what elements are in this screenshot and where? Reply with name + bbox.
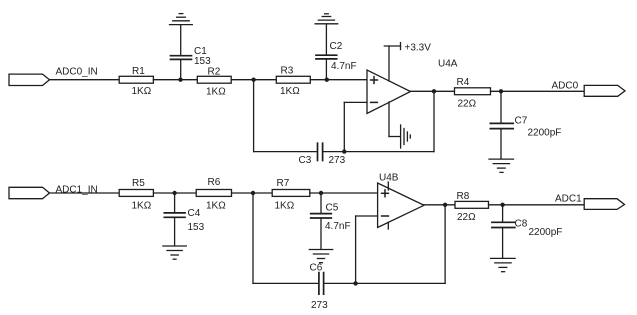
svg-text:22Ω: 22Ω bbox=[458, 98, 477, 109]
capacitor C1 bbox=[171, 25, 212, 80]
svg-text:R1: R1 bbox=[132, 66, 145, 77]
node junction R6/R7 feedback tap bbox=[251, 191, 255, 195]
svg-text:2200pF: 2200pF bbox=[529, 227, 563, 238]
svg-text:C6: C6 bbox=[310, 262, 323, 273]
svg-text:ADC1: ADC1 bbox=[555, 194, 582, 205]
ground below C4 bbox=[163, 246, 186, 259]
resistor R6 bbox=[196, 177, 231, 212]
wire R6 to R7 bbox=[232, 192, 273, 194]
node junction R5/R6/C4 bbox=[172, 191, 176, 195]
capacitor C7 bbox=[490, 91, 561, 159]
svg-text:R8: R8 bbox=[457, 191, 470, 202]
svg-text:C8: C8 bbox=[515, 219, 528, 230]
svg-text:ADC0: ADC0 bbox=[552, 80, 579, 91]
capacitor C5 bbox=[311, 193, 351, 249]
svg-text:C5: C5 bbox=[326, 203, 339, 214]
svg-text:R2: R2 bbox=[208, 67, 221, 78]
wire U4A output to R4 bbox=[411, 90, 455, 92]
wire feedback rail left segment U4B bbox=[253, 282, 319, 284]
wire feedback vertical right bbox=[433, 91, 435, 151]
svg-text:ADC1_IN: ADC1_IN bbox=[56, 184, 98, 195]
resistor R1 bbox=[119, 66, 153, 97]
resistor R8 bbox=[455, 191, 489, 223]
svg-text:+3.3V: +3.3V bbox=[405, 42, 432, 53]
wire R5 to R6 bbox=[153, 192, 196, 194]
node junction R4/C7 bbox=[499, 89, 503, 93]
wire inverting input branch bbox=[344, 102, 367, 151]
wire R3 to U4A noninverting input bbox=[310, 79, 367, 81]
ground U4A pin bbox=[389, 102, 410, 148]
wire R1 to R2 bbox=[153, 79, 197, 81]
ground above C2 bbox=[315, 14, 338, 24]
resistor R4 bbox=[455, 77, 491, 109]
svg-text:C7: C7 bbox=[515, 115, 528, 126]
svg-text:U4A: U4A bbox=[438, 58, 458, 69]
wire feedback vertical right U4B bbox=[444, 205, 446, 284]
svg-text:4.7nF: 4.7nF bbox=[331, 61, 357, 72]
svg-text:C3: C3 bbox=[299, 155, 312, 166]
capacitor C3 bbox=[299, 143, 346, 166]
svg-text:1KΩ: 1KΩ bbox=[132, 201, 152, 212]
svg-text:C4: C4 bbox=[188, 208, 201, 219]
node junction R1/R2/C1 bbox=[178, 78, 182, 82]
capacitor C2 bbox=[316, 24, 357, 80]
wire feedback rail right segment bbox=[323, 151, 434, 153]
wire feedback vertical up to R6/R7 node bbox=[252, 193, 254, 283]
node junction U4B output/feedback bbox=[443, 203, 447, 207]
svg-text:153: 153 bbox=[188, 222, 205, 233]
svg-text:R6: R6 bbox=[208, 177, 221, 188]
svg-text:1KΩ: 1KΩ bbox=[132, 86, 152, 97]
resistor R3 bbox=[276, 65, 310, 97]
op-amp U4A bbox=[367, 58, 458, 113]
wire input to R5 bbox=[50, 192, 120, 194]
wire R4 to ADC0 port bbox=[491, 90, 585, 92]
ground below C7 bbox=[489, 159, 514, 172]
port ADC1 connector bbox=[584, 199, 624, 210]
svg-text:R4: R4 bbox=[457, 77, 470, 88]
wire U4B output to R8 bbox=[424, 204, 455, 206]
svg-text:ADC0_IN: ADC0_IN bbox=[56, 66, 98, 77]
port ADC0_IN connector bbox=[9, 74, 50, 85]
svg-text:153: 153 bbox=[194, 56, 211, 67]
svg-text:273: 273 bbox=[311, 300, 328, 311]
svg-text:1KΩ: 1KΩ bbox=[206, 201, 226, 212]
svg-text:22Ω: 22Ω bbox=[457, 212, 476, 223]
node junction U4A output/feedback bbox=[432, 89, 436, 93]
svg-text:1KΩ: 1KΩ bbox=[280, 86, 300, 97]
node junction C6/inverting branch bbox=[353, 281, 357, 285]
power pin stub U4B bottom bbox=[387, 222, 389, 229]
wire inverting input branch U4B bbox=[356, 216, 378, 283]
node junction R7/C5 bbox=[319, 191, 323, 195]
ground below C8 bbox=[491, 258, 515, 271]
node junction R2/R3 feedback tap bbox=[251, 78, 255, 82]
node junction R3/C2 bbox=[325, 78, 329, 82]
wire feedback rail right segment U4B bbox=[324, 282, 445, 284]
svg-text:1KΩ: 1KΩ bbox=[275, 201, 295, 212]
wire R7 to U4B noninverting input bbox=[310, 192, 378, 194]
power +3.3V bbox=[384, 42, 431, 81]
svg-text:2200pF: 2200pF bbox=[528, 127, 562, 138]
capacitor C8 bbox=[492, 205, 563, 258]
port ADC1_IN connector bbox=[9, 187, 50, 198]
power pin stub U4B top bbox=[387, 182, 389, 190]
op-amp U4B bbox=[378, 173, 424, 228]
port ADC0 connector bbox=[584, 85, 625, 96]
resistor R5 bbox=[119, 178, 153, 212]
svg-text:R7: R7 bbox=[277, 178, 290, 189]
capacitor C4 bbox=[164, 193, 204, 246]
node junction C3/inverting branch bbox=[342, 149, 346, 153]
svg-text:4.7nF: 4.7nF bbox=[325, 221, 351, 232]
resistor R7 bbox=[272, 178, 310, 211]
wire input to R1 bbox=[50, 79, 120, 81]
svg-text:C2: C2 bbox=[330, 41, 343, 52]
ground below C5 bbox=[309, 250, 332, 263]
wire R2 to R3 bbox=[231, 79, 276, 81]
svg-text:R3: R3 bbox=[281, 65, 294, 76]
svg-text:1KΩ: 1KΩ bbox=[206, 87, 226, 98]
ground above C1 bbox=[170, 14, 193, 25]
wire feedback rail left segment bbox=[254, 151, 318, 153]
svg-text:R5: R5 bbox=[132, 178, 145, 189]
svg-text:273: 273 bbox=[329, 155, 346, 166]
capacitor C6 bbox=[310, 262, 329, 311]
wire R8 to ADC1 port bbox=[489, 204, 585, 206]
wire feedback vertical up to R2/R3 node bbox=[253, 80, 255, 152]
node junction R8/C8 bbox=[500, 203, 504, 207]
resistor R2 bbox=[197, 67, 231, 98]
